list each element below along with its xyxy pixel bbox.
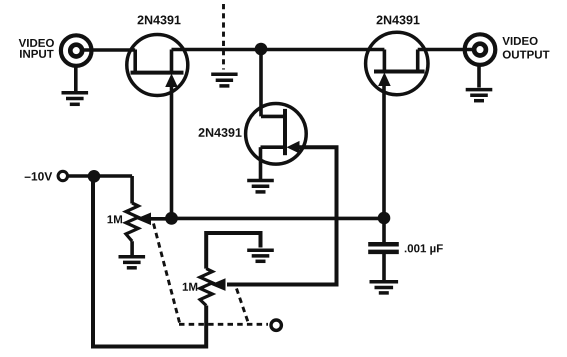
connector J1 video input <box>61 35 92 66</box>
label VIDEO OUTPUT <box>502 37 549 59</box>
transistor Q2 2N4391 JFET <box>246 104 307 180</box>
connector J2 video output <box>465 34 496 65</box>
node -10V junction <box>88 170 101 183</box>
node top rail junction <box>255 43 268 56</box>
wire C1 bottom to ground <box>382 254 386 280</box>
terminal gang control <box>271 320 281 330</box>
wire Q3 gate down to C1 node <box>382 84 386 218</box>
wire wiper node to C1 node <box>172 217 385 221</box>
label 2N4391 Q2 <box>199 128 242 137</box>
wire down left side <box>93 176 206 347</box>
dashed gang link horizontal <box>179 323 268 326</box>
wire junction down to Q2 drain <box>259 49 263 116</box>
potentiometer R1 1M <box>126 203 151 241</box>
wire R2 top lead to ground <box>206 233 260 269</box>
node R1 wiper junction <box>165 212 178 225</box>
wire Q3 to output connector <box>418 48 475 52</box>
wire Q1 gate down to R1 wiper node <box>170 85 174 219</box>
label VIDEO INPUT <box>19 39 54 58</box>
terminal -10V <box>58 171 67 180</box>
ground input <box>62 93 89 105</box>
node C1 junction <box>378 212 391 225</box>
label 1M R2 <box>183 283 197 291</box>
wire top rail Q1 to Q3 <box>172 48 385 52</box>
ground shield <box>211 74 237 86</box>
dashed gang link from R2 wiper <box>237 289 249 323</box>
label 2N4391 Q1 <box>138 15 181 24</box>
wire node to C1 top plate <box>382 218 386 242</box>
wire output connector to ground <box>477 65 481 88</box>
potentiometer R2 1M <box>200 269 226 306</box>
label 1M R1 <box>108 215 122 223</box>
label 2N4391 Q3 <box>377 15 420 24</box>
label .001 uF <box>405 244 443 254</box>
ground R1 <box>119 257 146 268</box>
ground C1 <box>370 282 399 293</box>
ground output <box>466 90 493 101</box>
wire R1 top lead <box>130 176 134 204</box>
wire R1 wiper to node <box>149 217 172 221</box>
ground R2 top <box>247 250 274 261</box>
ground Q2 source <box>247 181 274 192</box>
wire input connector to ground <box>74 67 78 92</box>
transistor Q1 2N4391 JFET <box>127 35 188 96</box>
dashed shield line <box>222 4 225 70</box>
wire Q2 gate to R2 wiper <box>227 147 337 284</box>
wire input to Q1 <box>83 48 136 52</box>
label -10V <box>25 172 53 180</box>
wire R1 bottom to ground <box>130 241 134 255</box>
dashed gang link from R1 wiper <box>154 224 180 323</box>
transistor Q3 2N4391 JFET <box>366 32 428 94</box>
wire -10V to R1 top <box>69 174 133 178</box>
capacitor C1 .001 uF <box>368 244 399 252</box>
